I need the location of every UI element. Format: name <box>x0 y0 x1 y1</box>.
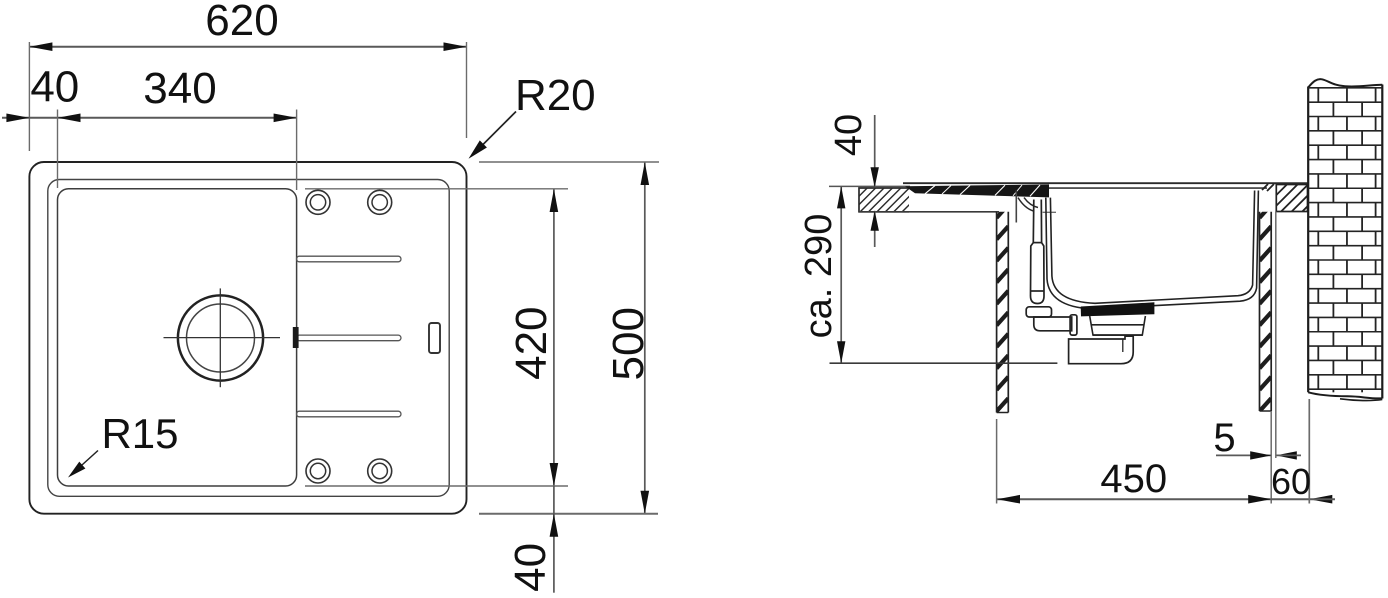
strainer locking ring <box>1090 316 1146 335</box>
dim 40 (countertop) top arrow <box>871 167 879 187</box>
svg-text:500: 500 <box>604 307 653 380</box>
countertop section hatch <box>835 188 926 212</box>
brick wall <box>1308 79 1382 400</box>
svg-text:5: 5 <box>1213 416 1235 460</box>
dim 620 left extension line <box>28 42 30 151</box>
dim ca.290 top arrow <box>837 186 845 208</box>
drain crosshair horizontal <box>164 337 281 339</box>
drainer groove 1 <box>297 256 402 262</box>
dim 500 bottom arrow <box>641 491 650 514</box>
drain elbow body <box>1034 317 1072 331</box>
overflow shoe <box>1026 307 1051 317</box>
dim 620 left arrow <box>29 42 52 51</box>
dim 450 left extension line <box>996 419 998 504</box>
dim 420 line <box>553 189 555 486</box>
dim 450 left arrow <box>997 495 1020 504</box>
sink rim inner edge <box>48 180 449 497</box>
dim 60 outside tail <box>1309 498 1335 500</box>
svg-text:620: 620 <box>205 0 278 45</box>
bowl outline (top view) <box>58 189 297 486</box>
dim 500 top extension line <box>479 161 659 163</box>
dim 5 left line <box>1216 454 1271 456</box>
dim 420 bottom arrow <box>550 463 559 486</box>
dim ca.290 bottom arrow <box>837 341 845 363</box>
tap hole tick <box>1043 211 1056 213</box>
section cut tick on bowl edge <box>293 327 299 348</box>
dim 60 line <box>1271 498 1309 500</box>
screw hole 4 <box>368 459 392 483</box>
dim 340 left arrow <box>58 114 81 123</box>
svg-text:420: 420 <box>507 306 556 379</box>
sink rim section strip <box>905 184 1049 197</box>
dim 420 top extension line <box>305 188 568 190</box>
R15 leader line <box>72 451 98 475</box>
tap hole edge line <box>1015 191 1017 223</box>
overflow tube <box>1031 200 1045 304</box>
dim 450 right extension line <box>1270 411 1272 504</box>
dim 500 top arrow <box>641 162 650 185</box>
dim 420 top arrow <box>550 189 559 212</box>
R20 leader arrowhead <box>469 140 487 158</box>
cabinet right side panel <box>1260 205 1272 411</box>
sink rim top line <box>903 182 1308 184</box>
R15 leader arrowhead <box>68 462 85 478</box>
svg-text:60: 60 <box>1271 461 1311 502</box>
screw hole 2 <box>368 190 392 214</box>
drain connector bar <box>1070 315 1077 335</box>
strainer flange <box>1081 302 1155 316</box>
dim 620 line <box>29 46 466 48</box>
overflow connection curves <box>1018 198 1038 211</box>
dim 620 right arrow <box>444 42 467 51</box>
bowl section outer surface <box>1046 191 1259 309</box>
sink outer edge (top view) <box>29 162 466 514</box>
dim 60 outside arrow <box>1309 495 1332 504</box>
dim 40 extension line <box>57 110 59 189</box>
sink rim right section block <box>1249 185 1329 212</box>
svg-text:R15: R15 <box>101 410 178 457</box>
drain circle inner <box>187 304 255 372</box>
dim 450 line <box>997 498 1271 500</box>
dim 450 right arrow <box>1248 495 1271 504</box>
countertop bottom line <box>859 211 999 213</box>
rim corner hatch wedge <box>1262 184 1274 191</box>
drainer groove 2 <box>297 335 402 341</box>
dim 340 right arrow <box>274 114 297 123</box>
waste cup <box>1069 336 1134 364</box>
drainer groove 3 <box>297 411 402 417</box>
dim ca.290 line <box>840 186 842 363</box>
bowl section inner surface <box>1050 191 1254 304</box>
drain circle outer <box>178 295 263 380</box>
dim 40 (countertop) line <box>874 115 876 187</box>
bowl far top edge line <box>1049 187 1267 189</box>
dim 5 left arrow <box>1250 451 1271 459</box>
svg-text:R20: R20 <box>515 71 596 120</box>
R20 leader line <box>472 112 516 156</box>
dim 40 (countertop) lower line <box>874 211 876 247</box>
wall face extension line <box>1308 399 1310 504</box>
svg-text:340: 340 <box>143 64 216 113</box>
dim ca.290 extension line <box>830 362 1058 364</box>
countertop surface line <box>829 185 910 187</box>
screw hole 1 <box>306 190 330 214</box>
dim 40 bottom line <box>553 486 555 593</box>
dim 420 bottom extension line <box>305 485 568 487</box>
cabinet left side panel <box>997 205 1009 413</box>
overflow slot marking <box>429 323 440 353</box>
dim 40/340 line <box>2 117 297 119</box>
screw hole 3 <box>306 459 330 483</box>
dim 40 outside arrow <box>6 114 29 123</box>
dim 5 right arrow <box>1276 451 1297 459</box>
dim 500 line <box>644 162 646 514</box>
dim 500 bottom extension line <box>479 513 658 515</box>
sink edge extension line <box>1275 212 1277 459</box>
svg-text:40: 40 <box>506 543 555 592</box>
svg-text:40: 40 <box>30 63 79 112</box>
svg-text:ca. 290: ca. 290 <box>798 214 840 339</box>
dim 5 right tail <box>1276 454 1301 456</box>
svg-text:450: 450 <box>1100 457 1167 501</box>
dim 40 (countertop) bottom arrow <box>871 211 879 231</box>
dim 40 bottom arrow <box>550 514 559 537</box>
svg-text:40: 40 <box>828 114 870 156</box>
dim 340 extension line <box>296 110 298 191</box>
dim 620 right extension line <box>466 42 468 138</box>
countertop section outline <box>859 188 909 212</box>
drain crosshair vertical <box>219 288 221 387</box>
